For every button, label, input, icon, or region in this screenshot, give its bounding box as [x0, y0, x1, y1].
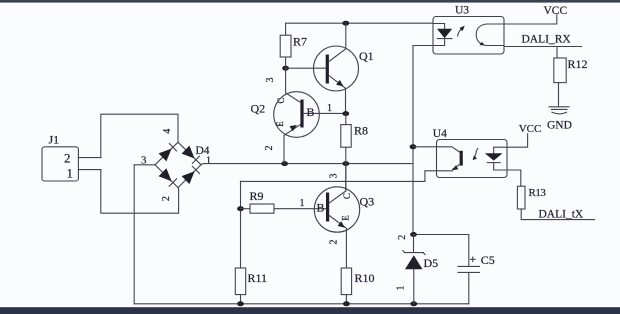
- wire U4 input (node to box): [413, 146, 437, 148]
- svg-text:Q3: Q3: [360, 195, 375, 209]
- svg-text:1: 1: [300, 198, 305, 209]
- svg-text:3: 3: [141, 155, 147, 167]
- transistor Q3: [314, 164, 374, 268]
- capacitor C5: [414, 235, 495, 304]
- resistor R11: [235, 268, 267, 304]
- node Q1 emitter / Q2 base / R8 top: [342, 111, 349, 116]
- resistor R12: [554, 47, 588, 106]
- transistor Q2: [251, 68, 346, 163]
- optocoupler U4: [433, 128, 507, 178]
- svg-text:U4: U4: [433, 128, 447, 140]
- svg-text:E: E: [341, 215, 351, 221]
- svg-text:U3: U3: [455, 5, 469, 17]
- node U4 input junction: [410, 144, 417, 149]
- svg-text:1: 1: [206, 155, 211, 166]
- bridge rectifier D4: [141, 129, 211, 201]
- wire J1 pin2 to bridge pin4 (up and over): [101, 114, 178, 157]
- wire U4 anode to VCC: [507, 134, 528, 147]
- resistor R10: [341, 268, 374, 304]
- resistor R8: [341, 114, 368, 164]
- resistor R9: [241, 189, 327, 213]
- wire J1 pin1 to bridge pin2 (down and over): [101, 170, 179, 214]
- U3 LED: [433, 24, 445, 29]
- svg-text:1: 1: [67, 166, 74, 181]
- svg-text:2: 2: [64, 151, 71, 166]
- node Q2 emitter junction: [281, 161, 288, 166]
- svg-text:VCC: VCC: [544, 5, 568, 17]
- svg-text:2: 2: [329, 240, 340, 245]
- svg-text:E: E: [275, 121, 285, 127]
- svg-text:B: B: [317, 201, 325, 215]
- node R11 bottom: [237, 301, 244, 306]
- svg-text:2: 2: [264, 146, 275, 151]
- zener diode D5: [396, 235, 439, 304]
- wire ground rail (bottom): [134, 303, 469, 305]
- wire R8 bottom to Q3 collector: [345, 164, 347, 191]
- wire base node horizontal (R9/R11 column to U4): [241, 180, 425, 182]
- U3 light arrow: [458, 28, 463, 36]
- svg-text:1: 1: [396, 286, 407, 291]
- node R10 bottom: [343, 301, 350, 306]
- svg-text:DALI_RX: DALI_RX: [522, 33, 572, 45]
- svg-text:C5: C5: [481, 253, 495, 267]
- wire U3 cathode to DALI column: [413, 45, 433, 47]
- page top edge band: [0, 0, 620, 3]
- node Q1 collector on top rail: [342, 21, 349, 26]
- U4 LED: [485, 153, 503, 160]
- connector J1: [42, 133, 78, 182]
- wire bridge pin3 stub: [134, 164, 155, 166]
- resistor R7: [280, 23, 307, 68]
- transistor Q1: [286, 23, 374, 113]
- svg-text:R13: R13: [529, 187, 547, 199]
- wire U3 collector to VCC: [504, 15, 557, 24]
- wire U4 cathode to R13: [507, 170, 521, 186]
- U4 phototransistor: [437, 147, 461, 153]
- node R9 left junction: [237, 206, 244, 211]
- svg-text:B: B: [307, 105, 315, 119]
- svg-text:C: C: [342, 193, 352, 199]
- Q2 emitter with arrow: [284, 125, 301, 164]
- node D5 bottom: [410, 301, 417, 306]
- svg-text:Q2: Q2: [251, 102, 266, 116]
- svg-text:D5: D5: [424, 256, 439, 270]
- diode D4 top-right: [182, 146, 195, 159]
- wire top rail: [286, 22, 433, 24]
- svg-text:R12: R12: [568, 57, 588, 71]
- svg-text:C: C: [276, 97, 286, 103]
- svg-text:3: 3: [329, 174, 340, 179]
- svg-text:Q1: Q1: [359, 49, 374, 63]
- svg-text:R8: R8: [354, 124, 368, 138]
- svg-text:DALI_tX: DALI_tX: [539, 209, 584, 221]
- node D5 top junction: [410, 232, 417, 237]
- wire DALI mid rail (bridge pin1 to node column): [201, 164, 413, 165]
- wire DALI column vertical (U3 cathode to D5): [412, 46, 414, 235]
- wire U4 emitter to base node (jog): [425, 171, 437, 182]
- svg-text:GND: GND: [547, 120, 572, 132]
- diode D4 top-left: [159, 149, 172, 162]
- svg-text:2: 2: [397, 235, 408, 240]
- diode D4 bottom-left: [159, 168, 172, 181]
- diode D4 bottom-right: [182, 171, 195, 184]
- node R8 bottom junction: [342, 161, 349, 166]
- wire left column vertical (to R9 and R11): [240, 181, 242, 268]
- svg-text:VCC: VCC: [519, 123, 542, 135]
- wire J1 pin1 stub: [78, 169, 100, 171]
- svg-text:3: 3: [265, 78, 276, 83]
- resistor R13: [517, 186, 594, 219]
- svg-text:2: 2: [161, 196, 172, 201]
- svg-text:R11: R11: [248, 271, 268, 285]
- wire J1 pin2 stub: [78, 157, 100, 159]
- svg-text:R10: R10: [355, 271, 375, 285]
- svg-text:J1: J1: [49, 133, 60, 147]
- svg-text:1: 1: [327, 103, 332, 114]
- optocoupler U3: [433, 5, 504, 55]
- Q2 base wire to Q1 emitter column: [304, 112, 346, 114]
- U4 light arrow: [474, 149, 478, 158]
- node R7 bottom / Q1 base / Q2 collector: [282, 66, 289, 71]
- wire DALI_RX: [504, 46, 582, 48]
- svg-text:4: 4: [162, 129, 173, 134]
- svg-text:R7: R7: [293, 35, 307, 49]
- page bottom edge band: [0, 307, 620, 314]
- ground symbol GND: [547, 107, 572, 132]
- Q2 collector: [286, 68, 301, 102]
- wire left vertical to ground rail: [133, 165, 135, 304]
- svg-text:R9: R9: [250, 189, 264, 203]
- U3 phototransistor: [476, 24, 504, 46]
